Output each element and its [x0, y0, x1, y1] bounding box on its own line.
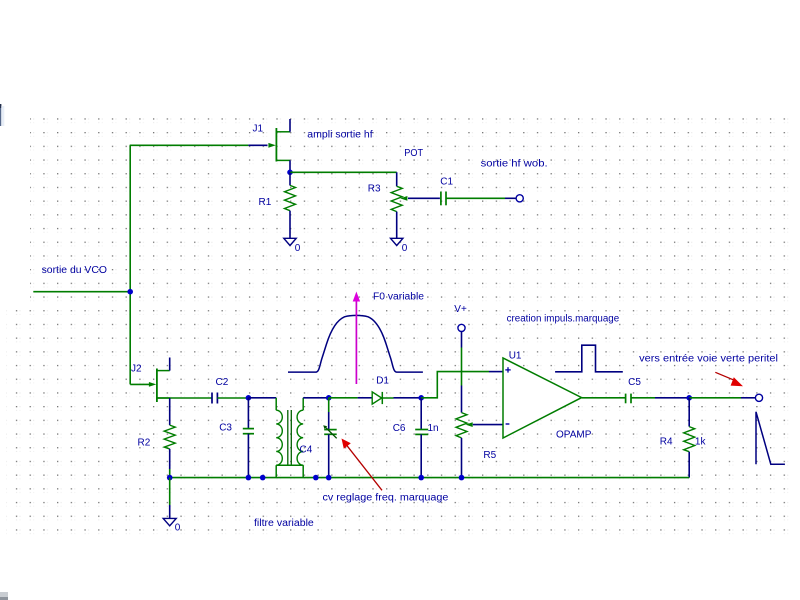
capacitor C4 variable: [323, 398, 337, 478]
svg-text:C4: C4: [300, 445, 313, 456]
svg-text:0: 0: [295, 243, 301, 254]
svg-text:R4: R4: [660, 437, 673, 448]
ground J2: [163, 518, 176, 525]
wire transformer right to node C4: [303, 397, 329, 399]
wire J2 drain stub: [169, 358, 171, 371]
node bus R2: [167, 475, 173, 481]
wire J1 source to node: [289, 160, 291, 172]
capacitor C5: [626, 394, 631, 404]
waveform pulse: [555, 345, 623, 372]
svg-text:R2: R2: [138, 438, 151, 449]
wire J2 source to C2: [157, 397, 212, 399]
grid dot field upper: [30, 112, 792, 305]
svg-text:C5: C5: [628, 377, 641, 388]
svg-text:J1: J1: [253, 124, 264, 135]
transformer right winding: [297, 398, 303, 478]
wire bus to ground J2: [169, 478, 171, 505]
ground R1: [284, 238, 296, 245]
wire D1 to node C6: [394, 397, 422, 399]
wire port stub right: [741, 397, 755, 399]
op-amp U1: [503, 358, 582, 438]
arrow F0 magenta: [353, 292, 360, 385]
wire node to output port: [689, 397, 741, 399]
wire ground bus: [170, 477, 690, 479]
wire node to D1: [329, 397, 358, 399]
wire C2 to node: [217, 397, 248, 399]
svg-text:C3: C3: [219, 423, 232, 434]
bottom-left corner gray blob: [0, 592, 8, 600]
wire opamp output to C5: [582, 397, 626, 399]
svg-text:C6: C6: [393, 423, 406, 434]
svg-text:R1: R1: [259, 197, 272, 208]
resistor R1: [285, 172, 296, 238]
capacitor C1: [441, 192, 446, 206]
node bus C4: [326, 475, 332, 481]
wire node to transformer left: [248, 397, 276, 399]
node bus xfrm left: [260, 475, 266, 481]
svg-text:vers entrée voie verte peritel: vers entrée voie verte peritel: [639, 354, 778, 365]
node VCO junction: [127, 289, 133, 295]
svg-text:sortie hf wob.: sortie hf wob.: [481, 158, 548, 170]
svg-text:ampli sortie hf: ampli sortie hf: [307, 130, 373, 141]
svg-text:U1: U1: [509, 351, 522, 362]
transformer core: [288, 410, 292, 465]
wire node to R3: [290, 171, 397, 173]
wire J1 gate navy part: [248, 144, 267, 146]
transformer bottom bar: [276, 464, 303, 466]
node C6 junction: [418, 395, 424, 401]
node C2/C3 junction: [246, 395, 252, 401]
resistor R4: [684, 398, 695, 478]
node bus C3: [246, 475, 252, 481]
ground R3: [391, 238, 403, 245]
resistor R2: [164, 398, 175, 478]
node bus xfrm right: [313, 475, 319, 481]
svg-text:R5: R5: [483, 450, 496, 461]
svg-text:C2: C2: [216, 377, 229, 388]
wire R5 wiper to minus input: [473, 424, 503, 426]
wire J1 gate: [130, 144, 249, 146]
svg-text:1n: 1n: [428, 423, 439, 434]
arrow red peritel: [715, 372, 743, 386]
svg-text:filtre variable: filtre variable: [254, 518, 314, 529]
svg-text:OPAMP: OPAMP: [556, 430, 592, 441]
svg-text:cv reglage freq. marquage: cv reglage freq. marquage: [323, 493, 449, 504]
wire node to opamp plus input: [421, 372, 489, 398]
svg-text:D1: D1: [376, 376, 389, 387]
svg-text:1k: 1k: [695, 437, 707, 448]
terminal V+: [458, 324, 465, 331]
diode D1: [372, 392, 393, 404]
svg-text:0: 0: [402, 243, 408, 254]
svg-text:R3: R3: [368, 184, 381, 195]
svg-text:POT: POT: [404, 147, 423, 159]
capacitor C2: [212, 393, 217, 404]
wire J2 gate: [130, 383, 149, 385]
capacitor C6: [415, 398, 428, 478]
svg-text:C1: C1: [440, 177, 453, 188]
transistor Q J2: [149, 369, 170, 403]
node C4/D1 junction: [326, 395, 332, 401]
waveform spike: [756, 412, 785, 464]
node R4 junction: [686, 395, 692, 401]
wire R3 wiper to C1: [408, 197, 440, 199]
node bus C6: [418, 475, 424, 481]
wire V+ down to R5: [461, 332, 463, 348]
svg-text:sortie du VCO: sortie du VCO: [42, 265, 108, 276]
left edge cursor mark: [0, 104, 4, 126]
wire navy to D1: [358, 397, 372, 399]
arrow red cv reglage: [342, 439, 383, 491]
terminal peritel output: [755, 394, 762, 401]
node J1 source junction: [287, 170, 293, 176]
svg-text:F0 variable: F0 variable: [373, 292, 424, 303]
svg-text:V+: V+: [454, 304, 467, 315]
resistor R5 (pot): [456, 413, 473, 478]
wire C5 to node R4: [631, 397, 655, 399]
resistor R3 (POT): [391, 172, 407, 238]
transformer left winding: [276, 398, 282, 478]
wire navy to node R4: [655, 397, 689, 399]
svg-text:0: 0: [175, 523, 181, 534]
wire port stub: [505, 197, 516, 199]
grid dot field lower: [6, 305, 792, 536]
waveform bell curve F0: [288, 315, 423, 372]
wire vertical VCO node: [129, 145, 131, 384]
node bus R5: [459, 475, 465, 481]
wire C1 to output port: [446, 197, 505, 199]
capacitor C3: [243, 398, 254, 478]
transistor Q J1: [268, 128, 290, 162]
svg-text:creation impuls.marquage: creation impuls.marquage: [507, 314, 620, 325]
terminal sortie hf wob: [516, 195, 523, 202]
svg-text:J2: J2: [131, 364, 142, 375]
wire sortie du VCO horizontal: [33, 291, 130, 293]
wire J1 drain stub: [289, 119, 291, 132]
